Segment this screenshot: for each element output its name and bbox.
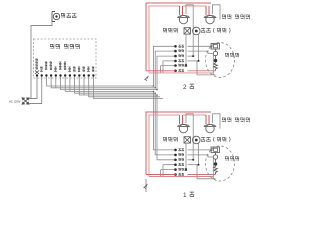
wire from main bell to receiver: [31, 22, 52, 99]
label 표시기 2F: [163, 28, 177, 33]
label 경종(지구) 2F: [201, 28, 230, 33]
riser wires up to 2F rows: [154, 46, 176, 89]
AC source symbol: [22, 98, 29, 104]
transmitter button 1F: [214, 162, 218, 166]
wire riser down r3: [157, 95, 176, 160]
svg-text:2: 2: [183, 84, 187, 91]
junction dots riser: [153, 85, 158, 96]
detector D1-1F return loop wire: [186, 114, 193, 160]
row junction dots 1F: [174, 149, 199, 176]
wire bus: receiver terminals to riser: [46, 77, 163, 99]
terminal T5: [55, 74, 57, 76]
wire count slash mark 2F: [145, 76, 149, 81]
transmitter lamp 1F: [213, 155, 217, 159]
red row wires 1F: [146, 174, 176, 176]
wire indicator leg 2F: [185, 34, 187, 65]
row wires with labels 2F: [188, 46, 214, 61]
transmitter P2 발신기 1F (dashed ellipse): [206, 146, 235, 181]
red row wires 2F: [146, 70, 176, 72]
wire bell leg 1F: [198, 144, 200, 165]
terminal T8: [69, 74, 71, 76]
wire AC to T1: [29, 77, 37, 99]
terminal T1 with fuse X symbol: [35, 71, 39, 75]
wire row4-2F left segment: [163, 61, 176, 73]
floor1 frame outer (red): [146, 112, 211, 175]
terminal T13: [92, 74, 94, 76]
wire row1-1F to transmitter: [188, 149, 212, 151]
wire indicator leg 1F: [185, 143, 187, 170]
wire row4-1F: [188, 164, 199, 166]
wire row1-2F to transmitter: [188, 45, 212, 47]
riser wires down to 1F rows: [154, 91, 176, 176]
wire row3-2F: [188, 55, 194, 57]
wire T11 joins bus line 6: [83, 77, 85, 96]
terminal T3: [45, 74, 47, 76]
wire T6 bus line 3: [61, 77, 158, 90]
floor2 frame outer (red): [146, 3, 211, 71]
label 화재 수신기: [50, 44, 79, 49]
detector D2-2F drop wires (red): [206, 6, 209, 15]
wire T12 bus line 7: [89, 77, 160, 97]
row labels 2F: [179, 45, 184, 47]
label 발신기 1F: [225, 156, 239, 160]
wire T5 joins bus line 2: [55, 77, 57, 88]
row wires with labels 1F: [188, 150, 214, 165]
wire T13 bus line 8: [93, 77, 163, 99]
detector D2-1F return loop wire: [213, 114, 221, 129]
detector D1-2F 화재감지기 dome: [177, 15, 189, 23]
detector D1-2F return loop wire: [186, 5, 193, 56]
transmitter lamp 2F: [213, 51, 217, 55]
wire row5-1F left segment: [161, 170, 176, 177]
transmitter resistor 2F: [214, 49, 218, 71]
transmitter P1 발신기 2F (dashed ellipse): [206, 43, 235, 78]
transmitter box 1F: [211, 147, 220, 153]
wire count slash mark 1F: [144, 184, 148, 189]
svg-text:AC 220V: AC 220V: [9, 100, 21, 104]
wire AC to T2: [29, 77, 42, 104]
wire row4-2F: [188, 60, 199, 62]
district bell 1F: [193, 136, 201, 144]
label 화재 감지기 2F: [222, 15, 249, 20]
transmitter button 2F: [214, 59, 218, 63]
wire T8 joins bus line 4: [69, 77, 71, 92]
wire riser up r2: [155, 51, 175, 88]
label 주경종: [61, 13, 76, 18]
indicator X-box 1F: [184, 137, 190, 143]
wire row4-1F left segment: [163, 165, 176, 177]
wire riser up r1: [154, 46, 176, 86]
fire receiver U1 화재 수신기 (dashed box): [34, 39, 97, 78]
wire T9 bus line 5: [75, 77, 156, 94]
row junction dots 2F: [174, 45, 199, 72]
wire row5-2F left segment: [161, 66, 176, 73]
wire T10 bus line 6: [79, 77, 157, 96]
transmitter resistor 1F: [214, 153, 218, 175]
detector D1-1F dome: [177, 124, 189, 132]
wire row3-1F: [188, 159, 194, 161]
detector D2-1F dome: [204, 124, 216, 132]
wire T7 bus line 4: [65, 77, 153, 92]
row labels 1F: [179, 149, 184, 151]
indicator X-box 2F: [184, 28, 190, 34]
svg-text:1: 1: [183, 192, 187, 199]
transmitter bottom wires 1F: [197, 157, 216, 179]
terminal T10: [78, 74, 80, 76]
bell B0 주경종 (main bell at top-left): [52, 12, 60, 22]
riser stub below 1F: [145, 179, 147, 192]
detector D2-2F dome: [204, 15, 216, 23]
terminal T6: [59, 74, 61, 76]
detector D1-2F drop wires (red): [180, 6, 183, 15]
detector D1-1F drop wires (red): [180, 115, 183, 124]
label 경종(지구) 1F: [201, 137, 230, 142]
wire row2-2F to transmitter lamp: [188, 51, 214, 53]
district bell 2F: [193, 27, 201, 35]
floor2 frame inner (red): [149, 6, 206, 73]
terminal T12: [88, 74, 90, 76]
label 표시기 1F: [163, 137, 177, 142]
wire riser up r3: [157, 56, 176, 90]
wire T4 bus line 2: [51, 77, 155, 88]
wire T3 bus line 1: [46, 77, 153, 87]
wire bell leg 2F: [198, 35, 200, 61]
terminal labels (tiny vertical smudge text): [36, 59, 38, 70]
transmitter bottom wires 2F: [197, 54, 216, 75]
detector D2-2F return loop wire: [213, 5, 221, 20]
detector D2-1F drop wires (red): [206, 115, 209, 124]
wire riser down r2: [155, 93, 175, 155]
wire row2-1F to transmitter lamp: [188, 155, 214, 157]
terminal T11: [83, 74, 85, 76]
label 발신기 2F: [225, 53, 239, 57]
transmitter box 2F: [211, 44, 220, 50]
label 화재 감지기 1F: [222, 118, 249, 123]
terminal T9: [73, 74, 75, 76]
terminal T2: [41, 74, 43, 76]
floor1 frame inner (red): [149, 115, 206, 177]
terminal T4: [50, 74, 52, 76]
wire riser down r1: [154, 91, 176, 149]
terminal T7: [64, 74, 66, 76]
